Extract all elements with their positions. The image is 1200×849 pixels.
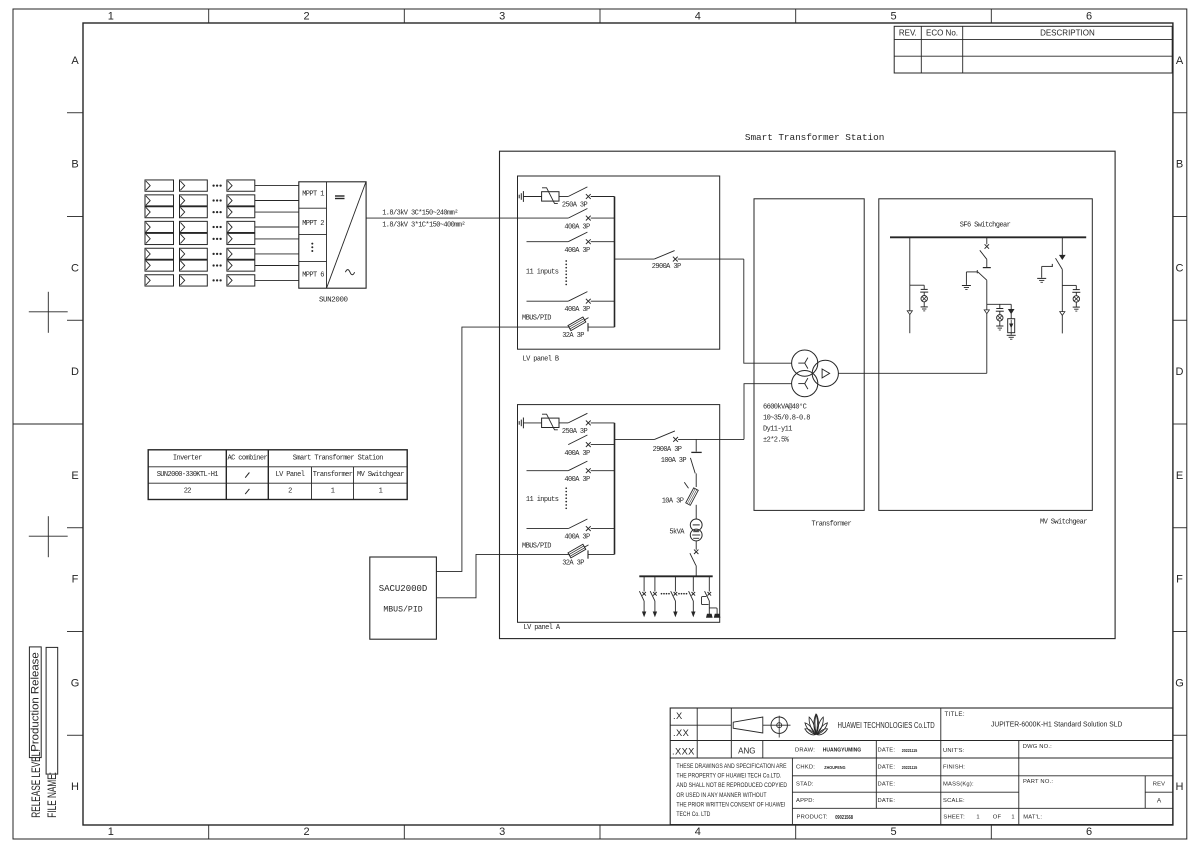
svg-text:MPPT 2: MPPT 2 [302, 220, 324, 228]
svg-text:OR USED IN ANY MANNER WITHOUT: OR USED IN ANY MANNER WITHOUT [676, 792, 767, 799]
svg-text:2900A 3P: 2900A 3P [652, 263, 681, 271]
svg-text:MBUS/PID: MBUS/PID [522, 315, 551, 323]
svg-text:32A 3P: 32A 3P [562, 332, 584, 340]
svg-text:H: H [1176, 781, 1184, 793]
svg-text:400A 3P: 400A 3P [564, 247, 590, 255]
svg-text:3: 3 [499, 10, 505, 22]
svg-text:SUN2000: SUN2000 [319, 297, 349, 305]
svg-text:5: 5 [890, 10, 896, 22]
svg-text:LV panel B: LV panel B [522, 355, 558, 363]
svg-text:20221115: 20221115 [902, 748, 918, 754]
svg-text:DATE:: DATE: [878, 765, 896, 771]
svg-text:400A 3P: 400A 3P [564, 223, 590, 231]
svg-text:THESE DRAWINGS AND SPECIFICATI: THESE DRAWINGS AND SPECIFICATION ARE [676, 763, 786, 770]
svg-text:11 inputs: 11 inputs [526, 269, 559, 277]
svg-text:SACU2000D: SACU2000D [379, 584, 428, 594]
svg-text:B: B [1176, 159, 1183, 171]
svg-text:C: C [71, 262, 79, 274]
svg-text:DATE:: DATE: [878, 798, 896, 804]
svg-text:SUN2000-330KTL-H1: SUN2000-330KTL-H1 [157, 471, 219, 479]
svg-text:6: 6 [1086, 10, 1092, 22]
svg-text:HUAWEI TECHNOLOGIES Co.LTD: HUAWEI TECHNOLOGIES Co.LTD [838, 721, 935, 730]
svg-text:1: 1 [331, 488, 335, 496]
svg-text:A: A [71, 55, 79, 67]
svg-text:REV: REV [1153, 782, 1166, 788]
svg-text:1: 1 [379, 488, 383, 496]
svg-text:6: 6 [1086, 826, 1092, 838]
svg-text:MV Switchgear: MV Switchgear [357, 471, 404, 479]
svg-text:SF6 Switchgear: SF6 Switchgear [960, 222, 1011, 230]
svg-text:UNIT'S:: UNIT'S: [943, 748, 965, 754]
svg-text:2: 2 [303, 10, 309, 22]
svg-text:PRODUCT:: PRODUCT: [797, 815, 828, 821]
svg-text:CHKD:: CHKD: [796, 765, 815, 771]
svg-text:11 inputs: 11 inputs [526, 496, 559, 504]
svg-text:100A 3P: 100A 3P [661, 457, 687, 465]
svg-text:.XX: .XX [673, 728, 689, 738]
svg-text:MPPT 1: MPPT 1 [302, 190, 324, 198]
svg-text:10A 3P: 10A 3P [662, 498, 684, 506]
svg-text:TITLE:: TITLE: [945, 711, 965, 718]
svg-text:FILE NAME:: FILE NAME: [47, 772, 60, 818]
svg-text:HUANGYUMING: HUANGYUMING [823, 748, 861, 754]
svg-text:400A 3P: 400A 3P [564, 450, 590, 458]
svg-text:1: 1 [108, 10, 114, 22]
svg-text:32A 3P: 32A 3P [562, 559, 584, 567]
svg-text:DESCRIPTION: DESCRIPTION [1040, 28, 1095, 37]
svg-text:ECO No.: ECO No. [926, 28, 958, 37]
svg-text:H: H [71, 781, 79, 793]
svg-text:6600kVA@40°C: 6600kVA@40°C [763, 403, 807, 412]
svg-text:Dy11-y11: Dy11-y11 [763, 426, 792, 434]
svg-text:250A 3P: 250A 3P [562, 428, 588, 436]
svg-text:MV Switchgear: MV Switchgear [1040, 519, 1087, 527]
svg-text:E: E [71, 470, 78, 482]
svg-text:D: D [71, 366, 79, 378]
svg-text:A: A [1176, 55, 1184, 67]
svg-text:F: F [72, 574, 79, 586]
svg-text:FINISH:: FINISH: [943, 765, 965, 771]
svg-text:3: 3 [499, 826, 505, 838]
svg-text:DATE:: DATE: [878, 748, 896, 754]
svg-text:D: D [1176, 366, 1184, 378]
svg-text:Transformer: Transformer [313, 471, 353, 479]
svg-text:STAD:: STAD: [796, 782, 814, 788]
svg-text:DRAW:: DRAW: [795, 748, 815, 754]
svg-text:PART NO.:: PART NO.: [1023, 779, 1053, 785]
svg-text:250A 3P: 250A 3P [562, 201, 588, 209]
svg-text:Production Release: Production Release [29, 652, 41, 751]
svg-text:SHEET:: SHEET: [943, 815, 965, 821]
svg-text:2: 2 [303, 826, 309, 838]
svg-text:400A 3P: 400A 3P [564, 533, 590, 541]
svg-text:G: G [1175, 677, 1184, 689]
svg-text:THE PRIOR WRITTEN CONSENT OF H: THE PRIOR WRITTEN CONSENT OF HUAWEI [676, 802, 785, 809]
svg-text:MBUS/PID: MBUS/PID [383, 604, 422, 614]
svg-text:ZHOUPENG: ZHOUPENG [824, 765, 846, 771]
svg-text:A: A [1157, 798, 1162, 805]
svg-text:1: 1 [1011, 815, 1014, 821]
svg-text:400A 3P: 400A 3P [564, 476, 590, 484]
svg-text:Smart Transformer Station: Smart Transformer Station [745, 132, 884, 143]
svg-text:ANG: ANG [738, 746, 755, 755]
svg-text:Smart Transformer Station: Smart Transformer Station [293, 454, 383, 462]
svg-text:DATE:: DATE: [878, 782, 896, 788]
svg-text:09021568: 09021568 [835, 815, 853, 821]
svg-text:1: 1 [108, 826, 114, 838]
svg-text:C: C [1176, 262, 1184, 274]
svg-text:5kVA: 5kVA [669, 529, 685, 537]
svg-text:SCALE:: SCALE: [943, 798, 965, 804]
svg-text:MAT'L:: MAT'L: [1023, 815, 1042, 821]
svg-text:1.8/3kV 3C*150~240mm²: 1.8/3kV 3C*150~240mm² [382, 210, 458, 218]
svg-text:THE PROPERTY OF HUAWEI TECH Co: THE PROPERTY OF HUAWEI TECH Co.LTD. [676, 773, 781, 780]
svg-text:DWG NO.:: DWG NO.: [1023, 744, 1052, 750]
svg-text:MASS(Kg):: MASS(Kg): [943, 782, 974, 788]
svg-text:G: G [71, 677, 80, 689]
svg-text:.XXX: .XXX [672, 747, 695, 757]
svg-text:AC combiner: AC combiner [227, 454, 267, 462]
svg-text:4: 4 [695, 10, 701, 22]
svg-text:AND SHALL NOT BE REPRODUCED CO: AND SHALL NOT BE REPRODUCED COPYIED [676, 783, 787, 790]
svg-text:4: 4 [695, 826, 701, 838]
svg-text:TECH Co. LTD: TECH Co. LTD [676, 812, 710, 819]
svg-text:400A 3P: 400A 3P [564, 306, 590, 314]
svg-text:±2*2.5%: ±2*2.5% [763, 437, 790, 445]
svg-text:Transformer: Transformer [812, 521, 852, 529]
svg-text:20221115: 20221115 [902, 765, 918, 771]
svg-text:E: E [1176, 470, 1183, 482]
svg-text:10~35/0.8-0.8: 10~35/0.8-0.8 [763, 415, 810, 423]
svg-text:1: 1 [976, 815, 979, 821]
svg-text:RELEASE LEVEL:: RELEASE LEVEL: [31, 750, 44, 818]
svg-text:F: F [1176, 574, 1183, 586]
svg-text:22: 22 [184, 488, 192, 496]
svg-text:5: 5 [890, 826, 896, 838]
svg-text:REV.: REV. [899, 28, 917, 37]
svg-text:B: B [71, 159, 78, 171]
svg-text:MBUS/PID: MBUS/PID [522, 542, 551, 550]
svg-text:LV Panel: LV Panel [275, 471, 304, 479]
svg-text:1.8/3kV 3*1C*150~400mm²: 1.8/3kV 3*1C*150~400mm² [382, 221, 465, 229]
svg-text:JUPITER-6000K-H1 Standard Solu: JUPITER-6000K-H1 Standard Solution SLD [991, 721, 1122, 728]
svg-text:APPD:: APPD: [796, 798, 815, 804]
svg-text:2: 2 [288, 488, 292, 496]
svg-text:2900A 3P: 2900A 3P [653, 446, 682, 454]
svg-text:MPPT 6: MPPT 6 [302, 271, 324, 279]
svg-text:OF: OF [993, 815, 1002, 821]
svg-text:.X: .X [673, 711, 683, 721]
svg-text:Inverter: Inverter [173, 454, 202, 462]
svg-text:LV panel A: LV panel A [523, 624, 560, 632]
